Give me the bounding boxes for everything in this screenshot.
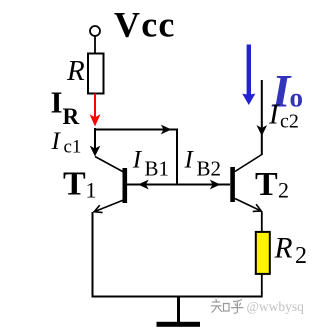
svg-text:@wwbysq: @wwbysq <box>247 299 305 314</box>
current arrow I_R (red) <box>90 94 101 127</box>
wire emitter T2 to R2 <box>261 212 263 233</box>
arrow I_c2 (pointing down) <box>257 125 268 136</box>
svg-text:R: R <box>274 233 293 265</box>
watermark 知 glyph <box>212 299 230 312</box>
wire R2 to bottom rail <box>261 274 263 297</box>
resistor R2 (yellow) <box>256 232 270 274</box>
wire base T1 to base T2 <box>127 184 230 186</box>
svg-text:1: 1 <box>86 178 97 203</box>
transistor T1 base bar <box>123 168 128 203</box>
svg-text:c1: c1 <box>64 137 82 158</box>
svg-text:o: o <box>290 83 304 113</box>
label I_c1 <box>51 128 82 158</box>
terminal Vcc (open circle) <box>90 26 100 36</box>
svg-text:T: T <box>63 166 86 203</box>
svg-text:I: I <box>268 99 280 131</box>
wire Vcc terminal to resistor R <box>94 37 96 55</box>
arrow I_B1 (pointing left) <box>138 180 149 190</box>
svg-text:Vcc: Vcc <box>114 5 176 45</box>
wire collector T2 (output) <box>261 80 263 155</box>
ground bar <box>157 322 201 327</box>
resistor R <box>88 54 104 94</box>
current arrow I_o (blue) <box>242 45 255 106</box>
transistor T1 emitter with arrow <box>94 200 125 213</box>
T2 collector diagonal <box>235 155 262 172</box>
svg-text:T: T <box>255 166 278 203</box>
svg-text:I: I <box>51 85 63 120</box>
label I_B2 <box>184 147 222 181</box>
transistor T2 emitter with arrow <box>235 199 261 212</box>
label I_c2 <box>268 99 299 133</box>
arrow I_B2 (pointing right) <box>210 180 221 190</box>
transistor T2 base bar <box>230 167 235 202</box>
svg-text:c2: c2 <box>280 111 299 133</box>
label R2 <box>274 233 308 270</box>
watermark 乎 glyph <box>232 300 244 314</box>
ground stub <box>177 297 180 323</box>
label T1 <box>63 166 97 203</box>
svg-text:B1: B1 <box>145 157 170 181</box>
arrow on node wire (pointing right) <box>161 125 172 135</box>
label I_B1 <box>132 147 169 181</box>
wire emitter T1 down and bottom rail <box>93 212 263 297</box>
svg-text:2: 2 <box>295 243 307 269</box>
label T2 <box>255 166 289 203</box>
node A wire: node to bases corner <box>95 130 177 185</box>
svg-text:R: R <box>63 104 80 129</box>
wire collector T1 <box>94 128 96 149</box>
T1 collector diagonal <box>95 157 124 173</box>
label I_o (blue) <box>271 66 303 118</box>
svg-text:2: 2 <box>278 178 289 203</box>
arrow I_c1 (pointing down) <box>90 146 101 157</box>
svg-text:R: R <box>66 55 85 87</box>
svg-text:B2: B2 <box>197 157 222 181</box>
label I_R <box>51 85 80 130</box>
